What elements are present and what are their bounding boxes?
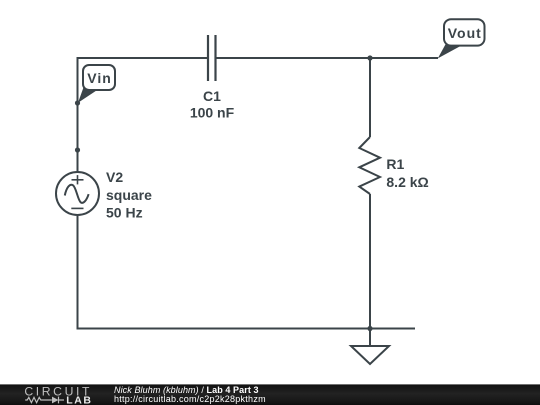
svg-text:http://circuitlab.com/c2p2k28p: http://circuitlab.com/c2p2k28pkthzm: [114, 394, 266, 404]
svg-text:C1: C1: [203, 88, 221, 104]
svg-text:LAB: LAB: [66, 395, 92, 405]
svg-text:V2: V2: [106, 169, 123, 185]
svg-text:8.2 kΩ: 8.2 kΩ: [386, 174, 428, 190]
svg-text:50 Hz: 50 Hz: [106, 205, 143, 221]
svg-text:Vout: Vout: [448, 25, 482, 41]
svg-text:Vin: Vin: [87, 70, 112, 86]
svg-text:R1: R1: [386, 156, 404, 172]
svg-text:100 nF: 100 nF: [190, 105, 235, 121]
svg-text:square: square: [106, 187, 152, 203]
